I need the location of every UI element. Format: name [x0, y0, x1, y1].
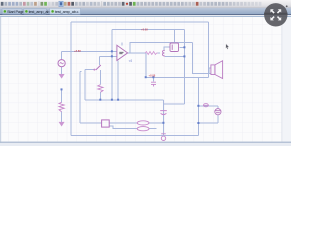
wire R3 bottom — [99, 92, 101, 100]
svg-text:u1: u1 — [129, 59, 133, 63]
opamp U1 — [117, 45, 128, 60]
fuse F1 — [203, 104, 209, 107]
wire mid y77.3 — [146, 76, 209, 78]
wire oval2 right — [149, 128, 157, 130]
wire x79.8 — [80, 71, 82, 123]
wire y103.8 — [164, 103, 185, 105]
resistor R4 horizontal — [145, 52, 157, 55]
fullscreen overlay circle — [264, 3, 287, 26]
tab test_amp 2 active — [50, 8, 81, 14]
wire R2 bottom — [61, 112, 63, 122]
junction dots — [61, 46, 200, 124]
speaker LS1 cone — [215, 61, 223, 79]
capacitor C2 x163 — [160, 111, 167, 115]
svg-text:test_amp_ab...: test_amp_ab... — [55, 9, 79, 14]
tab test_amp 1 — [24, 9, 50, 15]
wire y123.2 square left pin — [80, 122, 102, 124]
small dot right of circle — [286, 5, 288, 7]
wire y69.3 — [85, 68, 96, 70]
toolbar background — [0, 0, 291, 8]
components — [58, 43, 223, 141]
wire R3 top — [99, 70, 101, 85]
wire square pin2 — [109, 126, 137, 129]
wire opamp plus in y51.4 — [62, 50, 117, 52]
wire outer top y22 — [71, 21, 208, 23]
node bus c — [117, 99, 119, 101]
wire opamp out up — [128, 43, 193, 53]
svg-text:test_amp_ab: test_amp_ab — [29, 9, 50, 14]
wire square pin1 — [109, 122, 137, 124]
bottom statusbar — [0, 142, 291, 143]
wire box top pin x174.7 — [174, 29, 176, 42]
wire source bottom — [61, 67, 63, 74]
wire x184.5 down — [184, 29, 186, 104]
resistor R6 oval — [137, 127, 149, 131]
wire battery left x198.5 — [198, 77, 200, 135]
wire outer right x208.3 — [207, 22, 209, 77]
wire battery top y105.9 — [199, 105, 218, 107]
node batt bottom — [197, 122, 199, 124]
opamp inner text — [119, 52, 123, 53]
resistor R3 — [98, 85, 103, 93]
wire R2 top — [61, 90, 63, 103]
wire R4 right to Q cluster — [158, 52, 161, 54]
toolbar icons — [1, 1, 262, 6]
wire bus y99.8 — [85, 99, 164, 101]
node opamp minus — [111, 55, 113, 57]
wire x84.8 — [84, 69, 86, 100]
node x163 oval — [162, 122, 164, 124]
wire W2 y29.3 — [112, 28, 185, 30]
wire x192.5 down to speaker — [193, 43, 212, 74]
node q right b — [183, 55, 185, 57]
lamp D1 — [161, 134, 166, 141]
wire Q emitter y56.5 — [165, 56, 185, 58]
component X1 square — [102, 120, 110, 127]
wire battery stub — [217, 106, 219, 123]
wire bus x112 — [111, 29, 113, 100]
resistor R2 — [59, 102, 64, 111]
wire cap stub x153.5 — [153, 77, 155, 81]
mouse cursor — [226, 44, 230, 49]
transistor Q1 box — [170, 43, 179, 52]
capacitor C1 mid — [151, 82, 156, 86]
speaker LS1 box — [211, 65, 215, 75]
node mid left — [145, 76, 147, 78]
ground arrow R2 — [59, 122, 65, 127]
wire x163.5 down — [163, 100, 165, 136]
node opamp plus — [111, 50, 113, 52]
node mid cap — [152, 76, 154, 78]
svg-text:+8.88: +8.88 — [149, 74, 156, 78]
canvas — [1, 17, 281, 142]
wire opamp minus in — [100, 56, 117, 65]
wire opamp vplus stub — [121, 43, 123, 46]
node batt top — [197, 105, 199, 107]
wire x145.8 down — [145, 53, 147, 77]
transistor Q1 gate bar — [171, 45, 173, 50]
wire opamp out to R4 — [128, 52, 146, 54]
wire oval1 right — [149, 122, 164, 124]
tab Start Page — [2, 9, 24, 15]
switch blob — [93, 69, 95, 71]
wire box right y47.4 — [180, 46, 185, 48]
switch S1 — [96, 65, 101, 70]
node R2 terminal — [61, 88, 63, 90]
right scrollbar — [281, 17, 284, 142]
resistor R5 oval — [137, 121, 149, 125]
svg-text:+8.88: +8.88 — [74, 49, 81, 53]
ground arrow V1 — [59, 74, 65, 79]
source V1 circle — [58, 60, 65, 67]
battery B1 — [215, 109, 221, 115]
node q right a — [183, 46, 185, 48]
source V1 sine — [60, 62, 64, 63]
wire outer left x71 — [70, 22, 72, 135]
svg-text:Start Page: Start Page — [7, 9, 24, 14]
transistor Q2 curly — [162, 50, 165, 56]
wire Q box feed y47 — [164, 47, 170, 50]
tab bar — [0, 8, 291, 15]
schematic wires — [62, 22, 218, 135]
wire source top — [61, 51, 63, 59]
wire bottom y135.4 — [71, 134, 199, 136]
node bus b — [99, 99, 101, 101]
svg-text:+8.88: +8.88 — [141, 27, 148, 31]
wire opamp vee x118.2 — [117, 61, 119, 100]
node bus a — [111, 99, 113, 101]
svg-text:x: x — [77, 10, 79, 14]
wire battery bottom y123.1 — [199, 122, 218, 124]
